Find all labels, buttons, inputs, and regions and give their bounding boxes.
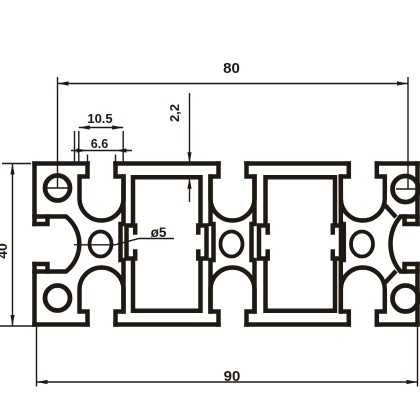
top slot dome 2 — [211, 164, 255, 221]
arrowhead 6.6 right — [116, 148, 127, 152]
left side slot lips — [35, 217, 48, 272]
bottom slot dome 3 — [341, 268, 385, 325]
svg-text:40: 40 — [0, 243, 10, 259]
tube 1 left outer wall — [121, 177, 124, 312]
right side slot lips — [405, 217, 418, 272]
dimension 90 extension lines — [37, 327, 418, 387]
svg-text:80: 80 — [223, 60, 240, 77]
profile top surface segments — [35, 161, 418, 166]
arrowhead 10.5 left — [79, 125, 90, 129]
tube 2 left outer wall — [252, 177, 255, 312]
dimension 90 line — [37, 381, 418, 383]
bottom slot dome 2 — [211, 268, 255, 325]
arrowhead 80 right — [397, 81, 408, 85]
dimension 6.6 lines — [71, 150, 132, 152]
profile right face — [415, 164, 420, 325]
web hole 3 — [351, 232, 373, 257]
svg-text:10.5: 10.5 — [87, 111, 112, 126]
arrowhead 10.5 right — [112, 125, 123, 129]
arrowhead 90 left — [37, 380, 48, 384]
screw hole top-left — [45, 176, 70, 201]
svg-text:ø5: ø5 — [151, 225, 167, 240]
tube 2 interior cavity — [259, 177, 341, 310]
screw hole bottom-left — [45, 286, 70, 311]
arrowhead 80 left — [58, 81, 69, 85]
dimension 10.5 line — [79, 127, 123, 129]
dimension 80 right extension line into hole center — [396, 77, 416, 189]
arrowhead 2.2 top — [187, 152, 191, 163]
profile left face — [32, 164, 37, 325]
web hole 2 — [221, 232, 243, 257]
top slot dome 3 — [341, 164, 385, 221]
arrowhead height bottom — [10, 315, 14, 326]
tube 1 right outer wall — [211, 177, 214, 312]
svg-text:90: 90 — [224, 368, 241, 385]
svg-text:6.6: 6.6 — [91, 137, 108, 151]
left height dimension line — [12, 164, 14, 327]
interior notch hooks tube 2 — [268, 226, 333, 259]
right side chamber — [390, 217, 404, 272]
dimension o5 leader — [74, 239, 174, 245]
svg-text:2,2: 2,2 — [167, 104, 182, 122]
left height extension lines — [0, 164, 37, 327]
left side chamber — [48, 217, 80, 272]
right block fillet diagonals — [385, 206, 394, 283]
screw hole bottom-right — [393, 286, 419, 312]
top slot dome 1 — [80, 164, 124, 221]
dimension 80 left extension line into hole center — [47, 77, 68, 188]
tube 2 right outer wall — [341, 177, 344, 312]
bottom slot dome 1 — [80, 268, 124, 325]
screw hole top-right — [393, 176, 419, 202]
dimension 6.6 extension lines — [88, 155, 116, 163]
arrowhead 6.6 left — [77, 148, 88, 152]
tube 1 interior cavity — [127, 177, 207, 310]
arrowhead height top — [10, 164, 14, 175]
profile bottom surface segments — [35, 322, 418, 327]
arrowhead 90 right — [407, 380, 418, 384]
web hole 1 (ø5) — [90, 232, 112, 257]
dimension 2.2 leader lines — [189, 93, 191, 202]
arrowhead 2.2 bottom — [187, 178, 191, 189]
dimension 80 line — [58, 83, 409, 85]
interior notch hooks tube 1 — [135, 226, 198, 259]
dimension 10.5 extension lines — [75, 131, 124, 163]
